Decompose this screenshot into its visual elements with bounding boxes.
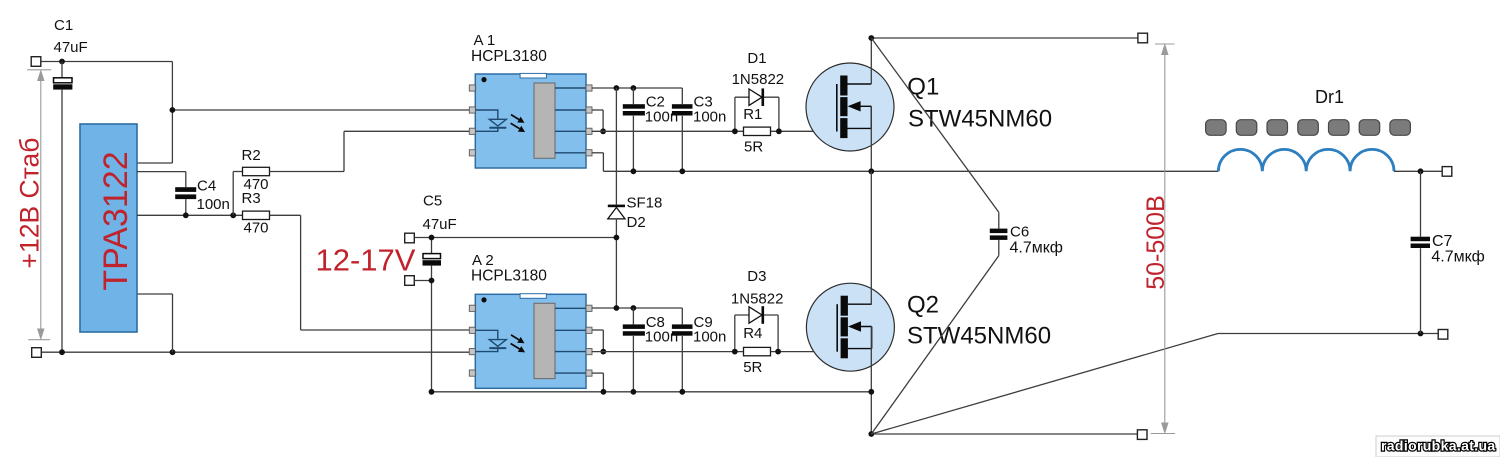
svg-text:R2: R2	[242, 147, 261, 164]
terminal +12V positive	[31, 57, 41, 67]
wire R2 branch riser	[232, 172, 234, 216]
svg-text:C4: C4	[197, 178, 216, 195]
transistor Q2 body arrow	[850, 322, 872, 330]
svg-text:D1: D1	[747, 50, 766, 67]
junction TPA ground	[170, 349, 176, 355]
svg-text:Q1: Q1	[907, 73, 939, 100]
capacitor C7	[1411, 171, 1430, 333]
pin-1 marker dot	[481, 77, 486, 82]
wire TPA pin2 to C4	[137, 171, 186, 173]
junction C7 top	[1418, 168, 1424, 174]
transistor Q1 body arrow	[849, 102, 871, 110]
terminal 12-17V return	[405, 276, 415, 286]
resistor R4	[744, 347, 771, 355]
capacitor C8	[623, 308, 645, 392]
HV positive top wire	[871, 37, 1138, 39]
wire diagonal from C6 bottom	[871, 256, 999, 434]
inductor Dr1 core	[1206, 120, 1411, 136]
internal LED	[475, 330, 506, 351]
transistor Q2 gate electrode	[836, 304, 838, 352]
junction C5 bottom	[429, 278, 435, 284]
capacitor C4	[175, 172, 196, 216]
wire diagonal to output return	[871, 334, 1218, 435]
svg-text:R4: R4	[743, 325, 762, 342]
inductor Dr1 winding	[1218, 149, 1394, 171]
transistor Q1 source lead	[848, 106, 872, 128]
internal detector IC block	[534, 83, 555, 158]
junction R4 left	[732, 349, 738, 355]
capacitor C9	[672, 308, 693, 392]
junction C3 bottom	[679, 168, 685, 174]
junction switch node	[868, 168, 874, 174]
terminal HV positive	[1138, 33, 1148, 43]
wire riser to A1 pin3	[343, 131, 345, 171]
junction C9 bottom	[679, 389, 685, 395]
pin-1 notch	[520, 294, 546, 299]
resistor R1	[744, 127, 771, 135]
junction C8 bottom	[631, 389, 637, 395]
junction R4 right	[775, 349, 781, 355]
IC U1 TPA3122 body	[80, 124, 137, 332]
junction gate node A2	[600, 349, 606, 355]
dimension line +12V	[27, 70, 51, 340]
wire Q1 source drop	[870, 106, 872, 171]
LED emission arrows	[511, 335, 525, 353]
capacitor C6	[990, 212, 1008, 255]
junction C4 bottom	[183, 212, 189, 218]
junction R1 right	[776, 128, 782, 134]
wire coil to output	[1394, 170, 1443, 172]
capacitor C1	[53, 62, 72, 353]
svg-text:Dr1: Dr1	[1315, 87, 1344, 107]
wire Q2 source drop	[870, 327, 872, 435]
op-amp U2 HCPL3180 A1	[469, 73, 592, 168]
wire A2 pin7 drop	[602, 330, 604, 352]
resistor R2	[243, 167, 270, 175]
wire A2 pin5 stub	[592, 372, 604, 374]
wire TPA pin1 stub	[137, 162, 172, 164]
internal output wires	[555, 308, 586, 373]
svg-text:100n: 100n	[197, 196, 230, 213]
wire A1 pin5 drop	[602, 153, 604, 172]
junction HV bottom node	[868, 431, 874, 437]
svg-text:STW45NM60: STW45NM60	[907, 322, 1051, 349]
op-amp U3 HCPL3180 A2	[469, 294, 592, 389]
wire A2 pin5 drop	[602, 373, 604, 392]
pin-1 notch	[520, 73, 546, 78]
capacitor C3	[672, 88, 693, 171]
resistor R3	[243, 211, 270, 219]
svg-text:TPA3122: TPA3122	[97, 151, 135, 290]
diode D1	[749, 88, 764, 106]
junction C2 bottom	[631, 168, 637, 174]
junction pin5 on return rail	[601, 389, 607, 395]
internal LED	[475, 110, 506, 131]
svg-text:4.7мкф: 4.7мкф	[1431, 249, 1484, 266]
IC pins	[469, 305, 592, 376]
pin-1 marker dot	[481, 297, 486, 302]
wire A1 pin7 stub	[592, 109, 603, 111]
wire to A1 pin2	[172, 109, 469, 111]
wire Q1 drain riser	[870, 38, 872, 84]
svg-text:470: 470	[244, 220, 269, 237]
transistor Q1 channel bars	[840, 76, 847, 139]
wire A1 pin7 drop	[602, 110, 604, 131]
junction C2 top	[631, 85, 637, 91]
wire into A2 pin2	[301, 329, 470, 331]
internal output wires	[555, 88, 586, 153]
svg-text:D2: D2	[627, 214, 646, 231]
svg-text:12-17V: 12-17V	[316, 242, 416, 277]
junction gate node A1	[600, 128, 606, 134]
low-side return rail	[432, 391, 872, 393]
svg-text:A 2: A 2	[472, 252, 494, 269]
svg-text:Q2: Q2	[907, 291, 939, 318]
wire output return	[1218, 333, 1438, 335]
junction HV top node	[868, 35, 874, 41]
junction C1 bottom	[59, 349, 65, 355]
transistor Q1 gate electrode	[836, 84, 838, 132]
junction source-return tie	[868, 389, 874, 395]
svg-text:radiorubka.at.ua: radiorubka.at.ua	[1381, 438, 1496, 454]
junction D2 anode / 12V feed	[614, 235, 620, 241]
wire TPA bottom pin drop	[172, 294, 174, 352]
transistor Q2 drain lead	[848, 303, 872, 305]
LED emission arrows	[511, 115, 525, 133]
HV negative bottom wire	[871, 433, 1137, 435]
junction TPA/A1 feed	[170, 107, 176, 113]
svg-text:50-500В: 50-500В	[1142, 195, 1170, 290]
svg-text:47uF: 47uF	[54, 39, 88, 56]
junction D2 bottom	[614, 305, 620, 311]
wire R3 right	[270, 214, 301, 216]
transistor Q1 drain lead	[848, 83, 872, 85]
svg-text:100n: 100n	[693, 108, 726, 125]
transistor Q1 body circle	[806, 63, 894, 151]
svg-text:5R: 5R	[744, 139, 763, 156]
transistor Q2 body circle	[806, 283, 894, 371]
svg-text:D3: D3	[747, 268, 766, 285]
ground/return rail (left)	[37, 351, 470, 353]
wire vertical to TPA pin1	[171, 62, 173, 164]
wire D2 column upper	[615, 88, 617, 205]
wire R2 left stub	[233, 171, 242, 173]
junction R1 left	[732, 128, 738, 134]
HCPL3180 body	[475, 74, 586, 168]
wire into A1 pin3	[344, 130, 470, 132]
wire C5 top	[415, 237, 617, 239]
wire A2 pin8 supply	[592, 307, 683, 309]
terminal output return	[1438, 330, 1448, 340]
wire R2 to riser	[270, 171, 345, 173]
svg-text:A 1: A 1	[474, 32, 496, 49]
junction C1 top	[59, 59, 65, 65]
svg-text:1N5822: 1N5822	[731, 291, 784, 308]
wire A1 pin8 supply	[592, 87, 683, 89]
junction R2 branch	[230, 212, 236, 218]
capacitor C2	[623, 88, 645, 171]
svg-text:100n: 100n	[645, 329, 678, 346]
junction C8 top	[631, 305, 637, 311]
diode D2 SF18	[608, 205, 625, 308]
wire +12V top rail	[41, 61, 172, 63]
svg-text:C6: C6	[1010, 223, 1029, 240]
terminal +12V return	[32, 348, 42, 358]
wire A2 pin7 stub	[592, 329, 604, 331]
wire A1 gate drive	[592, 130, 837, 132]
transistor Q2 channel bars	[841, 296, 848, 359]
svg-text:R1: R1	[743, 106, 762, 123]
svg-text:47uF: 47uF	[423, 216, 457, 233]
wire TPA pin3 row	[137, 214, 243, 216]
terminal output live	[1442, 167, 1452, 177]
wire R3 drop	[300, 215, 302, 330]
wire TPA bottom pin	[137, 293, 173, 295]
svg-text:C1: C1	[54, 17, 73, 34]
svg-text:1N5822: 1N5822	[732, 71, 785, 88]
wire diagonal to C6 top	[871, 38, 999, 212]
junction C5 top	[429, 235, 435, 241]
HCPL3180 body	[475, 294, 586, 388]
switch-node rail	[603, 170, 1218, 172]
svg-text:C5: C5	[423, 193, 442, 210]
diode D3 1N5822 loop	[735, 315, 778, 352]
svg-text:100n: 100n	[645, 108, 678, 125]
junction rail corner	[429, 389, 435, 395]
svg-text:C7: C7	[1432, 233, 1453, 250]
wire C5 bottom stub	[415, 280, 432, 282]
svg-text:R3: R3	[242, 190, 261, 207]
wire A2 gate drive	[592, 351, 837, 353]
IC pins	[469, 85, 592, 156]
svg-text:HCPL3180: HCPL3180	[471, 48, 547, 65]
internal detector IC block	[534, 303, 555, 378]
capacitor C5	[423, 238, 442, 392]
svg-text:HCPL3180: HCPL3180	[471, 268, 547, 285]
svg-text:+12В Стаб: +12В Стаб	[15, 138, 45, 269]
junction D2 top column	[614, 85, 620, 91]
svg-text:4.7мкф: 4.7мкф	[1010, 239, 1063, 256]
junction C7 bottom	[1418, 331, 1424, 337]
diode D3	[749, 306, 764, 324]
terminal 12-17V positive	[405, 233, 415, 243]
transistor Q2 source lead	[848, 327, 872, 349]
terminal HV negative	[1137, 430, 1147, 440]
wire A1 pin5 stub	[592, 152, 604, 154]
svg-text:5R: 5R	[743, 359, 762, 376]
svg-text:SF18: SF18	[627, 195, 663, 212]
diode D1 1N5822 loop	[735, 97, 779, 131]
wire Q2 drain riser	[870, 171, 872, 304]
svg-text:100n: 100n	[693, 329, 726, 346]
watermark radiorubka.at.ua	[1376, 436, 1500, 457]
dimension line 50-500V	[1151, 44, 1175, 434]
